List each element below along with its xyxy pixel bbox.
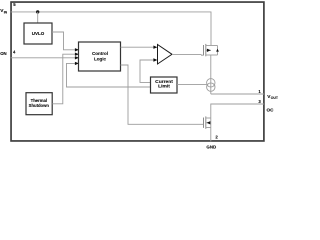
svg-text:GND: GND bbox=[206, 145, 216, 150]
wire Current Limit to current sense bbox=[177, 83, 207, 85]
svg-text:OC: OC bbox=[267, 107, 275, 112]
wire driver output to pass FET gate bbox=[172, 53, 201, 56]
wire pass FET source to current sense bbox=[210, 55, 212, 94]
wire OC output bbox=[211, 104, 264, 118]
wire Current Limit to driver lower input bbox=[140, 60, 154, 82]
wire junction to UVLO bbox=[37, 12, 39, 23]
arrowhead UVLO into Control Logic bbox=[75, 48, 79, 51]
svg-text:ON: ON bbox=[0, 51, 6, 56]
arrowhead into driver top input bbox=[153, 46, 157, 49]
wire OC FET source to GND bbox=[210, 118, 212, 141]
wire Control Logic to driver input bbox=[121, 46, 154, 48]
arrowhead into driver lower input bbox=[153, 58, 157, 61]
wire VIN rail to pass FET drain bbox=[11, 12, 211, 46]
svg-text:OUT: OUT bbox=[271, 96, 279, 100]
wire Current Limit to Control Logic bbox=[67, 63, 151, 87]
wire ON to Control Logic bbox=[11, 57, 75, 59]
node junction on VIN rail bbox=[36, 10, 39, 13]
svg-text:Limit: Limit bbox=[158, 84, 170, 90]
transistor Q1 pass FET bbox=[201, 44, 219, 56]
Control Logic box bbox=[79, 42, 121, 71]
UVLO U1 box bbox=[24, 23, 52, 44]
IC outline border bbox=[11, 2, 264, 141]
pin label VIN bbox=[0, 8, 7, 14]
transistor Q2 OC open-drain FET bbox=[204, 116, 211, 128]
svg-text:IN: IN bbox=[4, 10, 8, 14]
svg-text:UVLO: UVLO bbox=[32, 31, 45, 36]
arrowhead Current Limit into Control Logic bbox=[75, 62, 79, 65]
Thermal Shutdown box bbox=[26, 93, 52, 115]
Current Limit box bbox=[151, 77, 178, 93]
svg-text:Logic: Logic bbox=[94, 56, 106, 61]
current sense circles bbox=[207, 79, 215, 92]
wire UVLO output to Control Logic bbox=[52, 32, 75, 50]
wire Thermal Shutdown to Control Logic bbox=[52, 54, 75, 104]
op-amp driver triangle bbox=[158, 45, 173, 65]
arrowhead ON into Control Logic bbox=[75, 56, 79, 59]
pin label VOUT bbox=[267, 94, 279, 100]
svg-text:Shutdown: Shutdown bbox=[29, 103, 50, 108]
arrowhead Thermal Shutdown into Control Logic bbox=[75, 53, 79, 56]
wire VOUT bbox=[211, 93, 264, 95]
wire Control Logic to OC FET gate bbox=[121, 65, 204, 124]
